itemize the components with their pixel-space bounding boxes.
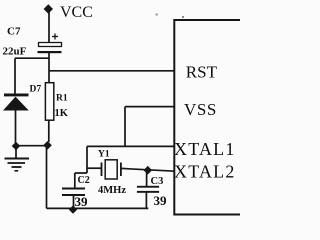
- svg-text:D7: D7: [30, 85, 42, 95]
- svg-text:R1: R1: [56, 94, 68, 104]
- svg-text:VSS: VSS: [184, 100, 217, 119]
- svg-text:VCC: VCC: [60, 4, 93, 21]
- svg-text:22uF: 22uF: [3, 46, 27, 58]
- svg-text:4MHz: 4MHz: [98, 185, 126, 196]
- svg-text:RST: RST: [186, 63, 218, 82]
- svg-text:C7: C7: [7, 26, 21, 38]
- svg-text:39: 39: [154, 193, 168, 208]
- svg-text:39: 39: [75, 194, 89, 209]
- svg-text:Y1: Y1: [98, 150, 110, 160]
- svg-text:1K: 1K: [55, 108, 69, 119]
- svg-text:XTAL2: XTAL2: [174, 162, 236, 182]
- svg-text:C2: C2: [78, 175, 90, 186]
- svg-text:XTAL1: XTAL1: [174, 139, 236, 159]
- svg-text:C3: C3: [151, 176, 164, 187]
